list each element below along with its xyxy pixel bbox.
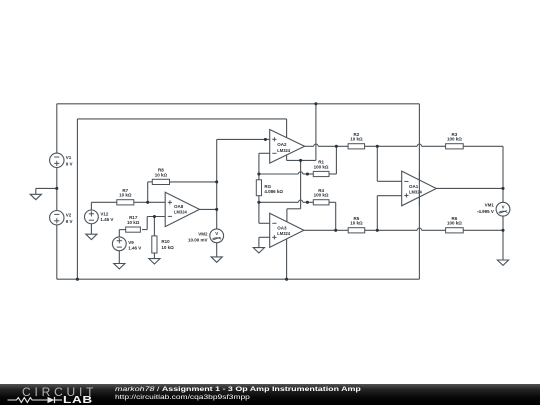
svg-text:OA3: OA3 (277, 226, 287, 231)
svg-text:10.00 mV: 10.00 mV (188, 238, 208, 243)
junction OA2 + input wire join (264, 138, 267, 141)
junction OA3 V+ on bottom rail (285, 278, 288, 281)
wire left rail (V1/V2 chain) (56, 104, 58, 279)
ground (114, 264, 125, 269)
svg-text:OA1: OA1 (409, 184, 419, 189)
wire R6 to VM1 vertical (463, 229, 503, 231)
op-amp OA1 LM324 (402, 171, 437, 206)
ground (86, 234, 97, 239)
op-amp OA2 LM324 (270, 130, 305, 164)
voltmeter VM1 -4.995 V (477, 202, 510, 216)
wire R17 to OA8 - input (142, 217, 165, 230)
svg-text:LM324: LM324 (277, 148, 290, 153)
svg-text:10 kΩ: 10 kΩ (119, 193, 132, 198)
svg-text:OA8: OA8 (174, 204, 184, 209)
wire R10 branch (153, 217, 155, 236)
resistor R10 10 k (152, 236, 174, 253)
wire VM1 vertical (502, 216, 504, 260)
junction R6 right / VM1 bottom (501, 229, 504, 232)
wire node B (R5/R6/OA1 +) (365, 228, 446, 230)
junction OA2 V- / OA3 V- supply split (299, 159, 302, 162)
junction top rail / OA2 V- riser (314, 102, 317, 105)
wire OA2 V- to top rail (287, 104, 316, 161)
junction OA8 output / VM2 (215, 208, 218, 211)
svg-text:9 V: 9 V (66, 219, 73, 224)
wire RG node to R4 (259, 200, 313, 202)
svg-text:100 kΩ: 100 kΩ (447, 137, 462, 142)
junction OA2 output / R1 feedback (335, 145, 338, 148)
resistor R2 10 k (348, 132, 365, 149)
wire OA8 to OA2 + input (217, 138, 270, 140)
svg-text:V1: V1 (66, 155, 72, 160)
op-amp OA8 LM324 (165, 192, 199, 226)
wire OA3 V+ to bottom rail (286, 239, 288, 279)
wire bottom supply rail (57, 278, 420, 280)
svg-text:OA2: OA2 (277, 142, 287, 147)
wire OA3 V- feed (287, 160, 301, 222)
svg-text:V12: V12 (100, 212, 109, 217)
junction inner loop on bottom rail (76, 278, 79, 281)
junction node A tap to OA1 - input (376, 145, 379, 148)
wire R7 to OA8 + input (134, 201, 165, 203)
ground (211, 257, 222, 262)
resistor R3 100 k (446, 132, 464, 149)
resistor R4 100 k (313, 188, 329, 205)
wire OA1 + input (377, 196, 401, 231)
resistor RG 4.086 k (256, 180, 283, 196)
voltmeter VM2 10.00 mV (188, 229, 224, 243)
junction R8 right / output riser (215, 180, 218, 183)
voltage source V1 9 V (50, 153, 73, 167)
wire R4 feedback to OA3 output (329, 202, 336, 230)
svg-text:LM324: LM324 (174, 209, 187, 214)
wire RG node to R1 (259, 172, 313, 174)
wire RG to OA3 - input (259, 196, 270, 224)
wire R8 branch (148, 182, 153, 202)
svg-text:100 kΩ: 100 kΩ (314, 193, 329, 198)
wire R8 to output vertical (170, 181, 217, 183)
svg-text:VM2: VM2 (198, 232, 208, 237)
svg-text:100 kΩ: 100 kΩ (447, 221, 462, 226)
wire OA2 - input loop (259, 153, 270, 180)
svg-text:10 kΩ: 10 kΩ (350, 137, 363, 142)
svg-text:VM1: VM1 (485, 203, 495, 208)
svg-text:1.46 V: 1.46 V (128, 245, 141, 250)
wire V12 to R7 (91, 202, 116, 210)
svg-text:9 V: 9 V (66, 161, 73, 166)
wire OA3 + input to ground (259, 237, 270, 247)
svg-text:10 kΩ: 10 kΩ (155, 172, 168, 177)
svg-text:V2: V2 (66, 213, 72, 218)
svg-text:LM324: LM324 (277, 231, 290, 236)
ground (149, 259, 160, 264)
wire R1 feedback to OA2 output (329, 146, 336, 174)
ground (30, 194, 41, 199)
wire OA8 output (200, 208, 217, 210)
wire OA1 - input (377, 146, 401, 181)
resistor R6 100 k (446, 216, 464, 233)
svg-text:LM324: LM324 (409, 189, 422, 194)
wire V9 to R17 (119, 230, 125, 237)
op-amp OA3 LM324 (270, 213, 304, 247)
junction OA8 - input node (153, 215, 156, 218)
wire inner +9V loop (77, 119, 286, 279)
wire R10 to ground (153, 253, 155, 259)
CircuitLab logo (0, 384, 110, 405)
junction node B tap to OA1 + input (376, 229, 379, 232)
voltage source V12 1.45 V (85, 210, 114, 224)
junction R1 left wire join (306, 172, 309, 175)
wire top supply rail (57, 103, 420, 105)
wire OA1 supply over triangle (418, 171, 420, 206)
wire V12 to ground (90, 224, 92, 234)
svg-text:10 kΩ: 10 kΩ (350, 221, 363, 226)
wire OA8 output vertical (216, 139, 218, 229)
wire OA1 output (436, 187, 503, 189)
junction OA8 + input node (146, 201, 149, 204)
junction V1-V2 midpoint node (55, 187, 58, 190)
wire V9 to ground (118, 251, 120, 264)
ground (253, 248, 264, 253)
junction RG bottom node (257, 201, 260, 204)
wire node A (R2/R3/OA1 -) (365, 144, 446, 146)
svg-text:10 kΩ: 10 kΩ (127, 220, 140, 225)
footer title text (115, 386, 295, 401)
resistor R8 10 k (152, 167, 169, 184)
voltage source V9 1.46 V (112, 237, 141, 251)
ground (497, 260, 508, 265)
resistor R7 10 k (117, 188, 134, 205)
junction R4 left wire join (306, 201, 309, 204)
svg-text:-4.995 V: -4.995 V (477, 209, 494, 214)
wire VM2 to ground (216, 243, 218, 257)
wire OA3 output to R5 (304, 229, 348, 231)
resistor R5 10 k (348, 216, 365, 233)
junction RG top node (257, 172, 260, 175)
svg-text:4.086 kΩ: 4.086 kΩ (264, 189, 283, 194)
svg-text:V: V (215, 231, 218, 236)
resistor R1 100 k (313, 160, 329, 177)
junction OA1 output / VM1 (501, 187, 504, 190)
svg-text:1.45 V: 1.45 V (100, 217, 113, 222)
resistor R17 10 k (126, 215, 141, 232)
svg-text:100 kΩ: 100 kΩ (314, 164, 329, 169)
wire R3 to output node (463, 146, 503, 202)
junction OA3 output / R4 feedback (334, 229, 337, 232)
voltage source V2 9 V (50, 211, 73, 225)
wire OA1 supply vertical (418, 104, 420, 279)
svg-text:V: V (502, 204, 505, 209)
svg-text:10 kΩ: 10 kΩ (161, 245, 174, 250)
wire OA2 output to R2 (305, 144, 349, 146)
svg-text:R10: R10 (161, 239, 170, 244)
wire ground branch at V1/V2 junction (36, 188, 57, 194)
